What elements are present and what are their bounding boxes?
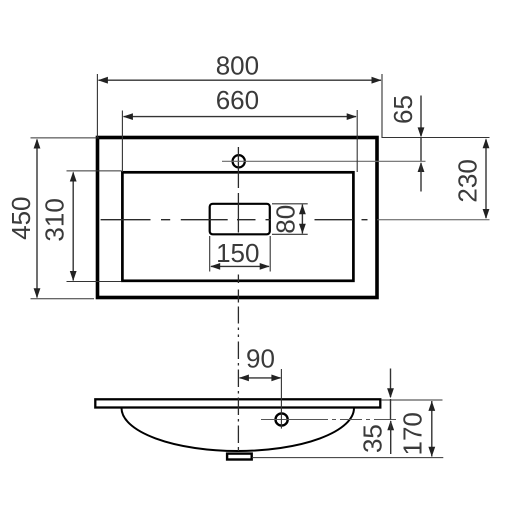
svg-text:660: 660	[216, 85, 259, 115]
svg-text:230: 230	[453, 159, 483, 202]
svg-text:90: 90	[246, 344, 275, 374]
svg-text:65: 65	[388, 95, 418, 124]
svg-text:800: 800	[216, 50, 259, 80]
svg-text:450: 450	[6, 197, 36, 240]
svg-text:170: 170	[398, 412, 428, 455]
svg-text:310: 310	[39, 198, 69, 241]
svg-text:35: 35	[358, 424, 388, 453]
svg-text:80: 80	[271, 205, 301, 234]
svg-text:150: 150	[216, 238, 259, 268]
